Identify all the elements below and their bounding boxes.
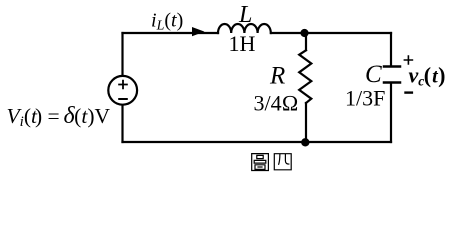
wire: top rail left segment [123, 32, 219, 34]
svg-text:1/3F: 1/3F [345, 86, 385, 111]
svg-text:vc(t): vc(t) [409, 63, 446, 89]
wire: left vertical (top rail corner down to source top) [121, 33, 123, 76]
capacitor plus sign [404, 55, 414, 64]
current arrow iL (filled) [192, 27, 205, 36]
voltage source plus sign [118, 80, 128, 89]
svg-text:iL(t): iL(t) [151, 10, 183, 34]
wire: right rail top (corner down to capacitor top plate) [390, 33, 392, 66]
svg-text:C: C [365, 61, 382, 88]
voltage source V1 circle [108, 76, 137, 105]
voltage source minus sign [118, 98, 128, 100]
node: bottom junction dot [301, 138, 309, 146]
svg-text:Vi(t) = δ(t)V: Vi(t) = δ(t)V [7, 103, 111, 130]
caption: character 四 [274, 154, 291, 170]
caption: character 圖 [252, 154, 269, 171]
capacitor minus sign [404, 91, 413, 93]
wire: right rail bottom (capacitor to bottom rail) [390, 84, 392, 143]
capacitor C1 top plate [384, 65, 400, 68]
wire: top rail right segment (coil to right corner) [271, 32, 391, 34]
wire: bottom rail [123, 141, 392, 143]
wire: resistor top stub from junction [305, 33, 307, 50]
svg-text:L: L [238, 2, 252, 28]
inductor L1 (4 humps) [218, 24, 271, 33]
resistor R1 zigzag [299, 50, 311, 103]
wire: source bottom to bottom rail [121, 106, 123, 142]
svg-text:R: R [269, 63, 285, 90]
svg-text:3/4Ω: 3/4Ω [254, 91, 299, 116]
wire: resistor bottom stub [305, 103, 307, 142]
capacitor C1 bottom plate [384, 81, 400, 84]
svg-text:1H: 1H [229, 31, 256, 56]
node: top junction dot [300, 29, 308, 37]
